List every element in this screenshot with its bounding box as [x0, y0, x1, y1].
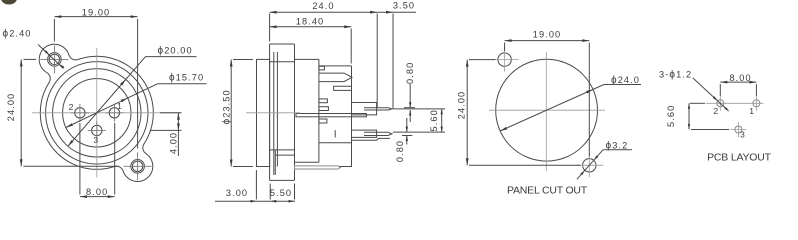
svg-text:24.00: 24.00: [457, 91, 467, 120]
svg-text:3.00: 3.00: [226, 188, 248, 198]
svg-text:3: 3: [93, 135, 98, 145]
panel cutout horizontal centerline: [489, 109, 605, 111]
front rim circle: [46, 62, 148, 164]
pin 2: [75, 108, 85, 118]
side view centerline: [246, 112, 300, 114]
svg-text:0.80: 0.80: [395, 140, 405, 162]
connector body outline (front view, flange with ears): [39, 44, 153, 181]
pcb pads row line: [706, 102, 764, 104]
svg-text:8.00: 8.00: [86, 187, 108, 197]
svg-text:ϕ20.00: ϕ20.00: [158, 46, 193, 57]
side view female contact: [319, 73, 352, 82]
svg-text:5.60: 5.60: [429, 109, 439, 131]
front view vertical centerline: [96, 48, 98, 178]
side view flange front edge: [269, 44, 271, 180]
svg-text:3-ϕ1.2: 3-ϕ1.2: [659, 70, 692, 81]
side view insert bottom edge: [319, 142, 352, 144]
side view insert right edge: [351, 66, 353, 167]
side view rib top: [319, 66, 325, 70]
svg-text:24.0: 24.0: [312, 1, 334, 11]
side view lug bottom: [270, 179, 295, 181]
svg-text:4.00: 4.00: [169, 132, 179, 154]
svg-text:2: 2: [69, 102, 74, 112]
panel cutout vertical centerline: [545, 52, 547, 171]
side view body bottom edge: [295, 161, 319, 163]
pcb pad 3: [735, 126, 742, 133]
svg-text:ϕ2.40: ϕ2.40: [3, 29, 32, 40]
circle &#x3d5;20.00: [53, 69, 141, 157]
svg-text:ϕ15.70: ϕ15.70: [169, 73, 204, 84]
side view rib A: [319, 99, 328, 103]
circle &#x3d5;15.70: [63, 79, 131, 147]
pcb pad 1: [753, 100, 760, 107]
panel hole top-left &#x3d5;3.2: [498, 53, 511, 66]
side view lug inner lines: [274, 150, 276, 175]
svg-text:18.40: 18.40: [296, 16, 325, 26]
svg-text:19.00: 19.00: [533, 30, 562, 40]
svg-text:19.00: 19.00: [82, 7, 111, 17]
side view body top edge: [270, 61, 295, 63]
side view leg corner line: [340, 166, 352, 168]
panel cutout circle: [496, 59, 598, 161]
side view contact step: [334, 86, 352, 90]
side view insert top edge: [319, 65, 352, 67]
side view rib C: [319, 119, 327, 123]
side view lug top: [270, 149, 295, 151]
svg-text:1: 1: [749, 106, 754, 116]
svg-text:0.80: 0.80: [405, 62, 415, 84]
svg-text:24.00: 24.00: [6, 93, 16, 122]
pin 3: [92, 125, 102, 135]
side view latch bump: [270, 43, 295, 45]
side view insert left edge: [318, 59, 320, 162]
side view flange lines: [273, 52, 275, 175]
svg-text:PANEL CUT OUT: PANEL CUT OUT: [507, 185, 588, 197]
pin 1: [109, 108, 119, 118]
front view horizontal centerline: [32, 112, 182, 114]
mounting hole top-left &#x3d5;2.40: [49, 54, 59, 64]
mounting hole bottom-right &#x3d5;2.40: [132, 161, 142, 171]
svg-text:3.50: 3.50: [393, 1, 415, 11]
svg-text:5.60: 5.60: [666, 105, 676, 127]
svg-text:5.50: 5.50: [270, 188, 292, 198]
side view solder pin 3 (lower): [335, 130, 392, 137]
pcb pad 2: [717, 100, 724, 107]
side view rib B: [319, 107, 329, 111]
svg-text:3: 3: [740, 129, 745, 139]
photo fragment top-left corner: [1, 0, 17, 5]
panel hole bottom-right &#x3d5;3.2: [583, 159, 596, 172]
side view mounting leg: [295, 166, 341, 169]
svg-text:2: 2: [713, 106, 718, 116]
svg-text:PCB LAYOUT: PCB LAYOUT: [707, 151, 772, 163]
svg-text:8.00: 8.00: [729, 73, 751, 83]
side view hidden pin ledge: [352, 138, 391, 140]
side view solder pin 1/2 (upper): [352, 103, 393, 115]
side view middle contact bar: [296, 114, 366, 117]
side view body panel edge: [294, 44, 296, 180]
side view barrel shell: [257, 59, 270, 166]
